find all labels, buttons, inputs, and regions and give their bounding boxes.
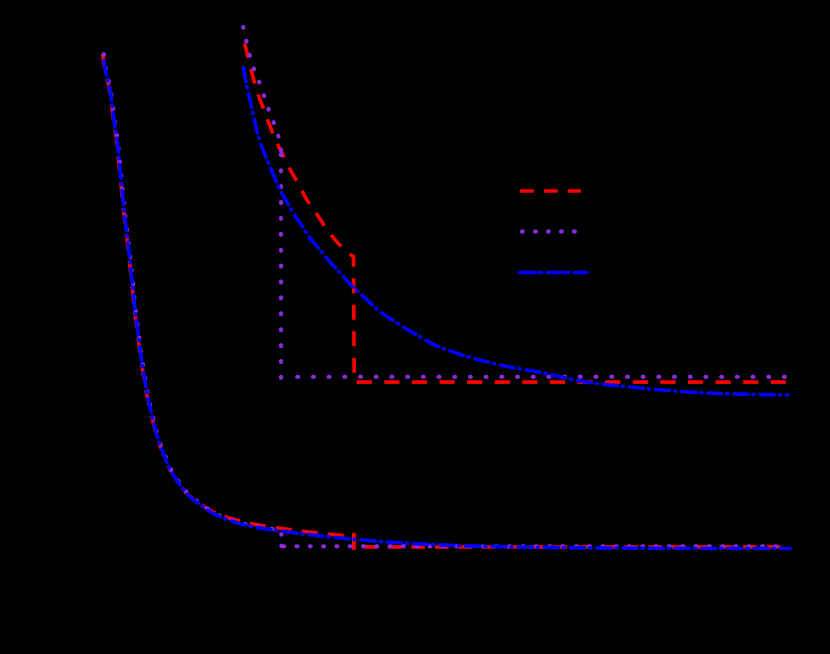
main purple dotted survival curve	[104, 54, 282, 530]
legend blue dash-dot sample	[520, 271, 587, 275]
main red dashed survival curve	[103, 54, 353, 536]
inset purple dotted vertical marker at t0	[279, 152, 283, 378]
inset red dashed horizontal asymptote	[357, 380, 788, 384]
legend red dashed sample	[520, 189, 581, 193]
inset purple dotted mean residual life curve	[243, 27, 281, 152]
legend purple dotted sample	[522, 229, 578, 233]
main purple dotted horizontal asymptote	[283, 544, 787, 548]
inset blue dash-dot mean residual life curve	[243, 62, 788, 395]
main red dashed vertical marker at t*	[352, 533, 356, 550]
main red dashed horizontal asymptote	[364, 545, 789, 549]
main blue dash-dot survival curve	[103, 55, 790, 549]
inset purple dotted horizontal asymptote	[297, 375, 787, 379]
main purple dotted vertical marker at t0	[279, 534, 283, 546]
inset red dashed mean residual life curve	[243, 37, 354, 381]
